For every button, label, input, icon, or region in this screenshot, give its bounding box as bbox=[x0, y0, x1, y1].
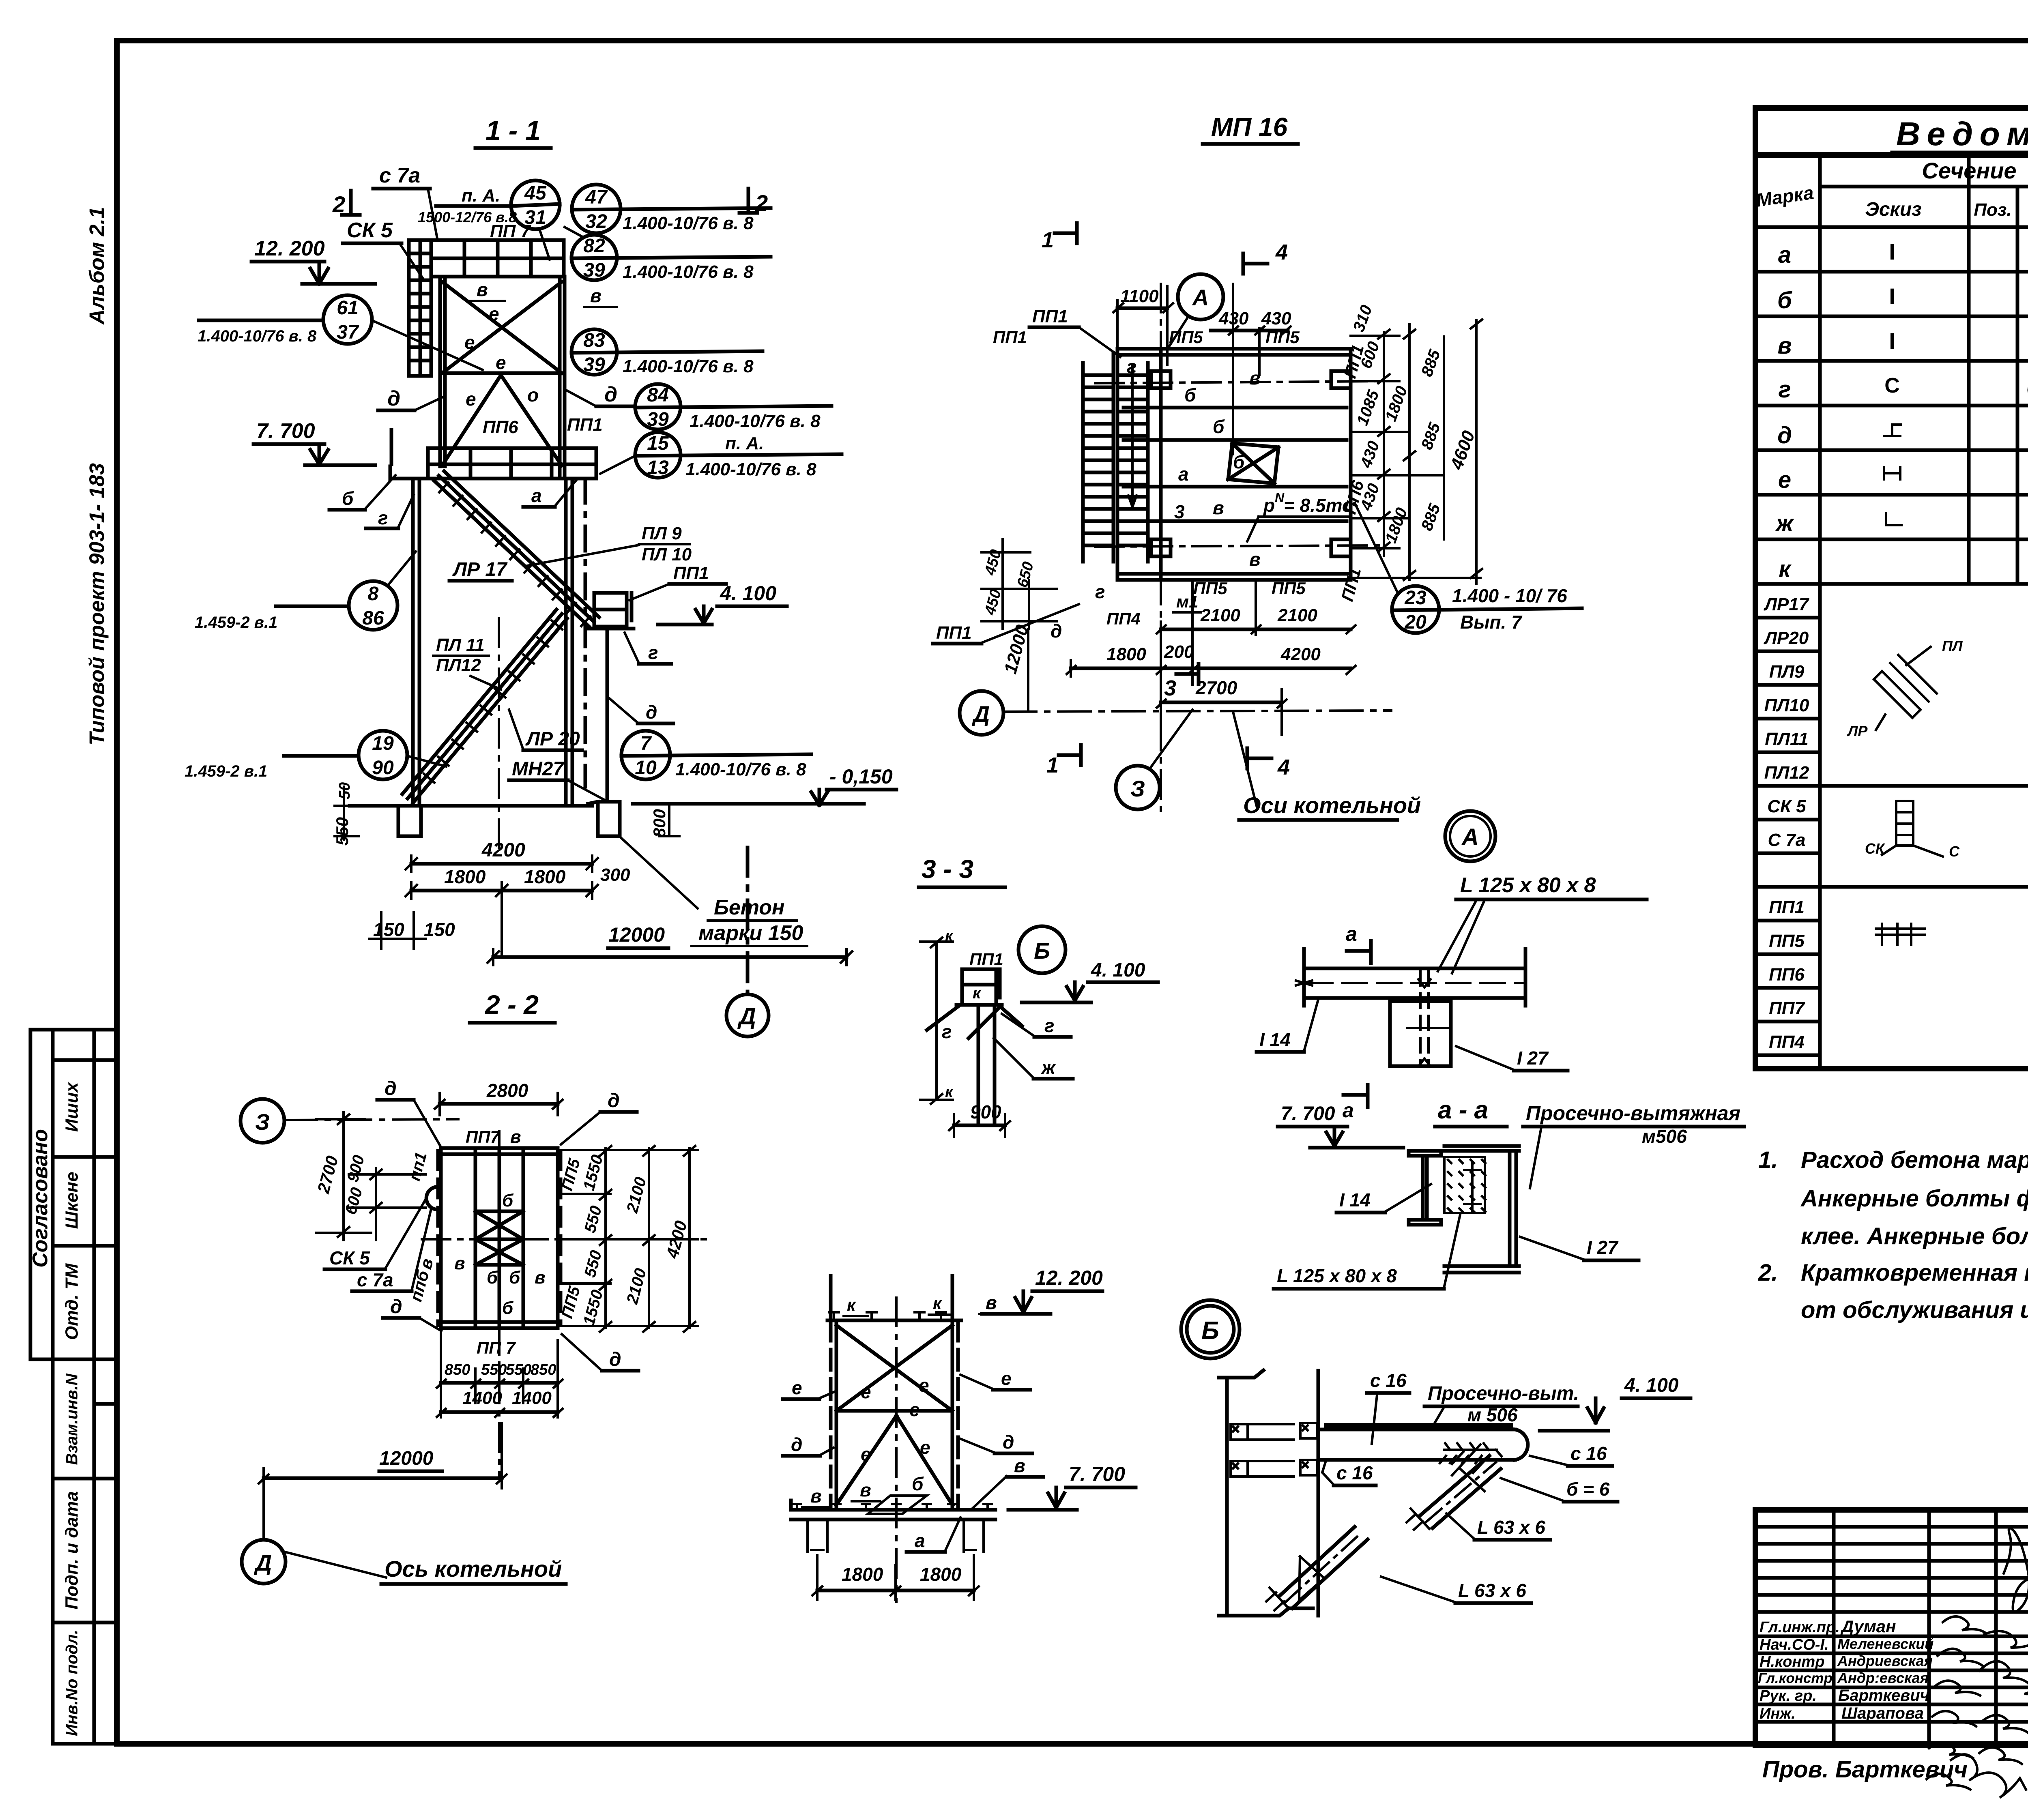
svg-text:I 27: I 27 bbox=[1587, 1237, 1619, 1258]
deck bbox=[1117, 349, 1351, 580]
svg-text:2100: 2100 bbox=[623, 1175, 650, 1215]
svg-text:к: к bbox=[1779, 556, 1792, 582]
svg-text:г: г bbox=[1127, 356, 1137, 377]
svg-text:13: 13 bbox=[647, 457, 669, 479]
svg-text:ПП1: ПП1 bbox=[969, 950, 1003, 969]
svg-text:г: г bbox=[1779, 376, 1791, 403]
svg-text:ппб: ппб bbox=[406, 1268, 433, 1304]
svg-text:Ось котельной: Ось котельной bbox=[385, 1556, 562, 1582]
svg-text:Д: Д bbox=[254, 1550, 272, 1575]
svg-text:2 - 2: 2 - 2 bbox=[484, 989, 539, 1019]
svg-text:1.: 1. bbox=[1758, 1147, 1778, 1173]
svg-text:12. 200: 12. 200 bbox=[254, 237, 325, 260]
callout 45/31 bbox=[418, 180, 560, 260]
svg-text:е: е bbox=[861, 1381, 871, 1402]
svg-text:б = 6: б = 6 bbox=[1566, 1479, 1610, 1500]
svg-text:Андриевская: Андриевская bbox=[1837, 1653, 1933, 1669]
svg-text:а: а bbox=[915, 1530, 925, 1551]
svg-text:310: 310 bbox=[1350, 303, 1376, 335]
callout 19/90 bbox=[185, 731, 446, 780]
svg-text:150: 150 bbox=[424, 919, 455, 940]
svg-text:е: е bbox=[909, 1399, 920, 1420]
svg-text:3: 3 bbox=[1174, 501, 1185, 522]
СК5 ladder cage bbox=[409, 240, 431, 376]
svg-text:39: 39 bbox=[583, 260, 605, 281]
callout 83/39 bbox=[571, 329, 763, 376]
svg-text:с 16: с 16 bbox=[1370, 1370, 1407, 1391]
X brace bbox=[836, 1325, 952, 1505]
svg-text:м 506: м 506 bbox=[1467, 1404, 1518, 1425]
svg-text:в: в bbox=[810, 1485, 822, 1507]
svg-text:г: г bbox=[378, 507, 388, 528]
svg-text:2100: 2100 bbox=[1277, 605, 1317, 625]
svg-text:430: 430 bbox=[1261, 309, 1291, 328]
svg-text:1085: 1085 bbox=[1353, 388, 1383, 428]
svg-text:ЛР20: ЛР20 bbox=[1764, 628, 1809, 648]
svg-text:е: е bbox=[496, 352, 506, 373]
svg-text:1400: 1400 bbox=[462, 1388, 502, 1408]
svg-text:4200: 4200 bbox=[1280, 644, 1321, 664]
svg-text:900: 900 bbox=[970, 1101, 1001, 1122]
svg-text:885: 885 bbox=[1418, 347, 1444, 379]
svg-text:ПЛ 11: ПЛ 11 bbox=[436, 635, 485, 655]
svg-text:в: в bbox=[535, 1268, 546, 1288]
svg-text:б: б bbox=[1184, 384, 1197, 406]
svg-text:850: 850 bbox=[531, 1361, 556, 1378]
svg-text:ПП1: ПП1 bbox=[1337, 566, 1364, 603]
svg-text:клее. Анкерные болты МН: клее. Анкерные болты МН 27 - 4 шт. bbox=[1801, 1223, 2028, 1249]
svg-text:ПП7: ПП7 bbox=[466, 1127, 500, 1146]
svg-text:С: С bbox=[1884, 374, 1900, 397]
svg-text:ПП1: ПП1 bbox=[673, 563, 709, 583]
svg-text:1.400-10/76 в. 8: 1.400-10/76 в. 8 bbox=[685, 459, 816, 479]
svg-text:б: б bbox=[502, 1298, 514, 1318]
svg-text:Ведомость элементов: Ведомость элементов bbox=[1896, 116, 2028, 152]
svg-text:82: 82 bbox=[583, 235, 605, 257]
svg-text:в: в bbox=[477, 279, 488, 300]
svg-text:4200: 4200 bbox=[481, 839, 525, 861]
svg-text:ЛР17: ЛР17 bbox=[1764, 595, 1810, 614]
svg-text:L 125 x 80 x 8: L 125 x 80 x 8 bbox=[1460, 874, 1596, 897]
svg-text:е: е bbox=[464, 332, 475, 353]
svg-text:Кратковременная нормативная: Кратковременная нормативная нагрузка на … bbox=[1801, 1260, 2028, 1286]
svg-text:ПП 7: ПП 7 bbox=[477, 1338, 516, 1357]
А circle top bbox=[1178, 274, 1223, 320]
beam bbox=[1296, 949, 1525, 1006]
svg-text:б: б bbox=[342, 488, 354, 509]
svg-text:1550: 1550 bbox=[580, 1288, 607, 1327]
svg-text:Сечение: Сечение bbox=[1922, 158, 2016, 183]
svg-text:600: 600 bbox=[342, 1186, 366, 1217]
text below title block bbox=[1762, 1753, 2028, 1801]
svg-text:Шарапова: Шарапова bbox=[1841, 1704, 1924, 1722]
svg-text:Просечно-вытяжная: Просечно-вытяжная bbox=[1526, 1102, 1740, 1125]
axis dash-dot bbox=[1095, 381, 1379, 383]
tower upper cage bbox=[440, 277, 565, 479]
svg-text:д: д bbox=[609, 1349, 621, 1370]
svg-text:б: б bbox=[487, 1268, 498, 1288]
svg-text:650: 650 bbox=[1014, 560, 1037, 589]
left dim line bbox=[920, 938, 953, 1104]
svg-text:к: к bbox=[933, 1294, 942, 1313]
svg-text:е: е bbox=[919, 1375, 929, 1396]
svg-text:ПП5: ПП5 bbox=[1193, 579, 1227, 598]
svg-text:е: е bbox=[792, 1377, 802, 1398]
svg-text:1800: 1800 bbox=[1382, 505, 1411, 545]
pp sketch bbox=[1876, 924, 1925, 945]
svg-text:ЛР: ЛР bbox=[1847, 723, 1868, 739]
Д circle with axis bbox=[960, 691, 1003, 735]
svg-text:84: 84 bbox=[647, 384, 668, 406]
svg-text:Гл.инж.пр.: Гл.инж.пр. bbox=[1759, 1619, 1840, 1636]
I14 section bbox=[1409, 1151, 1441, 1225]
svg-text:I: I bbox=[1889, 283, 1895, 309]
svg-text:1100: 1100 bbox=[1120, 286, 1159, 306]
svg-text:Меленевский: Меленевский bbox=[1837, 1635, 1933, 1652]
dashed edges bbox=[436, 1151, 440, 1325]
svg-text:ПЛ 10: ПЛ 10 bbox=[642, 545, 692, 564]
svg-text:ПП5: ПП5 bbox=[1265, 328, 1300, 347]
svg-text:Анкерные болты ф 12 устанав: Анкерные болты ф 12 устанавливать на эпо… bbox=[1800, 1185, 2028, 1212]
svg-text:430: 430 bbox=[1357, 439, 1383, 471]
svg-text:ПП1: ПП1 bbox=[567, 415, 603, 435]
title block bbox=[1755, 1510, 2028, 1790]
svg-text:Марка: Марка bbox=[1755, 182, 1815, 211]
svg-text:550: 550 bbox=[481, 1361, 507, 1378]
sk sketch bbox=[1882, 801, 1943, 856]
svg-text:32: 32 bbox=[585, 211, 607, 232]
callout 61/37 bbox=[198, 295, 483, 370]
svg-text:с 7а: с 7а bbox=[379, 164, 420, 187]
svg-text:в: в bbox=[986, 1292, 997, 1313]
svg-text:8: 8 bbox=[368, 583, 379, 605]
top platform grid bbox=[431, 240, 564, 277]
svg-text:ж: ж bbox=[1040, 1057, 1056, 1078]
svg-text:1550: 1550 bbox=[580, 1153, 607, 1192]
svg-text:в: в bbox=[1213, 497, 1224, 518]
beam С16 bbox=[1318, 1424, 1528, 1463]
svg-text:31: 31 bbox=[524, 207, 546, 228]
svg-text:200: 200 bbox=[1164, 642, 1194, 662]
svg-text:м506: м506 bbox=[1642, 1126, 1687, 1147]
section 3-3 bbox=[919, 854, 1158, 1137]
svg-text:15: 15 bbox=[647, 433, 669, 454]
svg-text:о: о bbox=[527, 384, 539, 406]
svg-text:550: 550 bbox=[581, 1204, 606, 1235]
svg-text:д: д bbox=[1777, 422, 1792, 449]
column band bbox=[1219, 1370, 1318, 1616]
bottom elevation frame bbox=[783, 1266, 1136, 1602]
svg-text:2100: 2100 bbox=[623, 1266, 650, 1306]
svg-text:б: б bbox=[502, 1191, 514, 1210]
svg-text:СК 5: СК 5 bbox=[347, 219, 393, 242]
svg-text:Оси котельной: Оси котельной bbox=[1243, 792, 1421, 818]
svg-text:3: 3 bbox=[1164, 676, 1176, 700]
svg-text:450: 450 bbox=[982, 588, 1005, 617]
svg-text:3 - 3: 3 - 3 bbox=[922, 854, 973, 884]
svg-text:ПП1: ПП1 bbox=[993, 328, 1027, 347]
svg-text:СК 5: СК 5 bbox=[329, 1247, 370, 1268]
svg-text:д: д bbox=[390, 1296, 402, 1318]
svg-text:ПП6: ПП6 bbox=[1769, 965, 1805, 985]
svg-text:1.459-2 в.1: 1.459-2 в.1 bbox=[195, 614, 277, 631]
svg-text:20: 20 bbox=[1404, 612, 1426, 633]
svg-text:е: е bbox=[489, 303, 499, 324]
svg-text:550: 550 bbox=[506, 1361, 531, 1378]
svg-text:а: а bbox=[1346, 923, 1357, 945]
svg-text:Н.контр: Н.контр bbox=[1759, 1653, 1824, 1670]
svg-text:г: г bbox=[1095, 581, 1105, 602]
svg-text:в: в bbox=[1014, 1455, 1025, 1476]
svg-text:2700: 2700 bbox=[1195, 677, 1237, 698]
svg-text:Гл.констр.: Гл.констр. bbox=[1758, 1670, 1837, 1686]
Д circle bottom bbox=[262, 1471, 265, 1539]
svg-text:в: в bbox=[1249, 549, 1261, 570]
svg-text:от обслуживания и монтажа: от обслуживания и монтажа 400 кгс/м bbox=[1801, 1297, 2028, 1323]
svg-text:Бетон: Бетон bbox=[714, 896, 784, 919]
plate sketch bbox=[1874, 647, 1937, 730]
svg-text:е: е bbox=[1001, 1368, 1012, 1389]
svg-text:д: д bbox=[1003, 1432, 1014, 1453]
column below bbox=[1390, 971, 1451, 1067]
right dim chains bbox=[1351, 320, 1482, 584]
callout 47/32 bbox=[572, 185, 771, 233]
svg-text:ПП4: ПП4 bbox=[1769, 1032, 1805, 1052]
З circle bbox=[1116, 766, 1160, 809]
svg-text:4600: 4600 bbox=[1446, 428, 1479, 472]
д circle bottom with axis bbox=[746, 848, 750, 994]
svg-text:86: 86 bbox=[362, 607, 384, 629]
svg-text:1800: 1800 bbox=[1382, 384, 1411, 424]
svg-text:п. А.: п. А. bbox=[725, 434, 764, 453]
З circle left with axis bbox=[241, 1099, 284, 1143]
svg-text:в: в bbox=[1777, 333, 1792, 359]
svg-text:р: р bbox=[1263, 495, 1275, 516]
svg-text:600: 600 bbox=[1357, 339, 1383, 371]
svg-text:ПП7: ПП7 bbox=[1769, 998, 1805, 1018]
detail а-а bbox=[1274, 1096, 1744, 1289]
svg-text:а: а bbox=[1343, 1099, 1354, 1122]
signatures squiggles bbox=[1927, 1528, 2028, 1790]
svg-text:марки 150: марки 150 bbox=[698, 921, 803, 945]
svg-text:к: к bbox=[945, 1084, 954, 1101]
svg-text:ЛР 20: ЛР 20 bbox=[525, 728, 580, 750]
bottom platform beam bbox=[791, 1500, 995, 1552]
svg-text:1800: 1800 bbox=[1106, 644, 1146, 664]
svg-text:Д: Д bbox=[972, 701, 990, 727]
svg-text:д: д bbox=[1051, 620, 1062, 642]
svg-text:З: З bbox=[255, 1109, 270, 1135]
svg-text:в: в bbox=[1249, 367, 1261, 388]
svg-text:ПЛ: ПЛ bbox=[1942, 637, 1963, 654]
svg-text:39: 39 bbox=[647, 409, 669, 430]
svg-text:п. А.: п. А. bbox=[462, 186, 500, 206]
svg-text:б: б bbox=[1777, 287, 1793, 313]
svg-text:ПЛ11: ПЛ11 bbox=[1765, 729, 1809, 749]
svg-text:б: б bbox=[1233, 451, 1245, 472]
svg-text:г: г bbox=[648, 642, 658, 663]
top chord with к marks bbox=[827, 1319, 961, 1322]
svg-text:Б: Б bbox=[1034, 938, 1050, 964]
left sidebar stamp boxes bbox=[29, 1030, 117, 1744]
ladder ЛР20 bbox=[402, 610, 567, 803]
notes text bbox=[1758, 1141, 2028, 1323]
svg-text:4. 100: 4. 100 bbox=[1624, 1375, 1679, 1396]
middle platform bbox=[390, 430, 596, 479]
svg-text:ЛР 17: ЛР 17 bbox=[452, 559, 508, 580]
svg-text:пп1: пп1 bbox=[406, 1150, 430, 1183]
svg-text:L 125 x 80 x 8: L 125 x 80 x 8 bbox=[1277, 1265, 1397, 1286]
svg-text:ПЛ10: ПЛ10 bbox=[1764, 695, 1809, 715]
platform ПП1 at 4.100 bbox=[589, 593, 634, 802]
svg-text:4: 4 bbox=[1277, 755, 1290, 779]
beam top detail bbox=[1257, 874, 1647, 1122]
svg-text:Шкене: Шкене bbox=[62, 1172, 82, 1229]
svg-text:L 63 x 6: L 63 x 6 bbox=[1458, 1580, 1526, 1601]
svg-text:300: 300 bbox=[600, 865, 630, 885]
svg-text:СК 5: СК 5 bbox=[1767, 796, 1806, 816]
svg-text:10: 10 bbox=[635, 757, 657, 779]
svg-text:Взам.инв.N: Взам.инв.N bbox=[63, 1373, 81, 1465]
svg-text:150: 150 bbox=[373, 919, 404, 940]
centerlines bbox=[422, 1238, 706, 1241]
svg-text:а: а bbox=[1778, 242, 1791, 268]
svg-text:Рук. гр.: Рук. гр. bbox=[1759, 1687, 1817, 1704]
svg-text:А: А bbox=[1192, 285, 1209, 310]
svg-text:ПП6: ПП6 bbox=[483, 417, 518, 437]
svg-text:е: е bbox=[466, 388, 476, 410]
group rows marka column bbox=[1755, 616, 1820, 620]
svg-text:1.400-10/76 в. 8: 1.400-10/76 в. 8 bbox=[675, 760, 806, 779]
svg-text:с 7а: с 7а bbox=[357, 1269, 393, 1290]
lower diagonal L63x6 bbox=[1266, 1527, 1368, 1610]
svg-text:23: 23 bbox=[1404, 587, 1426, 609]
svg-text:7. 700: 7. 700 bbox=[1281, 1103, 1335, 1125]
svg-text:1.400-10/76 в. 8: 1.400-10/76 в. 8 bbox=[198, 327, 317, 345]
elements list table (Ведомость элементов) bbox=[1755, 108, 2028, 1069]
hatched gusset bbox=[1444, 1157, 1485, 1213]
callout 15/13 bbox=[600, 432, 842, 479]
svg-text:I 14: I 14 bbox=[1259, 1029, 1291, 1050]
right dim chains bbox=[558, 1146, 698, 1332]
svg-text:12000: 12000 bbox=[608, 923, 665, 946]
svg-text:- 0,150: - 0,150 bbox=[829, 765, 893, 788]
callout 82/39 bbox=[565, 227, 771, 282]
svg-text:61: 61 bbox=[337, 297, 358, 319]
svg-text:N: N bbox=[1275, 490, 1285, 505]
svg-text:ПП5: ПП5 bbox=[1769, 931, 1805, 951]
svg-text:1800: 1800 bbox=[842, 1564, 883, 1585]
svg-text:Барткевич: Барткевич bbox=[1838, 1687, 1929, 1704]
flange plates with x bbox=[1231, 1423, 1317, 1477]
plan МП 16 bbox=[933, 112, 1582, 861]
ladder ЛР17 bbox=[434, 471, 599, 627]
section 1-1 drawing bbox=[185, 115, 896, 1037]
svg-text:д: д bbox=[608, 1090, 620, 1112]
svg-text:ПЛ9: ПЛ9 bbox=[1769, 662, 1805, 682]
svg-text:Инв.No подл.: Инв.No подл. bbox=[63, 1630, 81, 1736]
svg-text:Б: Б bbox=[1201, 1317, 1219, 1345]
svg-text:L 63 x 6: L 63 x 6 bbox=[1477, 1517, 1545, 1538]
ground and footings bbox=[350, 802, 864, 836]
svg-text:г: г bbox=[1044, 1015, 1055, 1036]
svg-text:37: 37 bbox=[337, 322, 359, 343]
svg-text:550: 550 bbox=[581, 1249, 606, 1279]
svg-text:д: д bbox=[387, 387, 400, 410]
svg-text:Эскиз: Эскиз bbox=[1865, 199, 1921, 220]
callout 84/39 bbox=[635, 384, 831, 431]
upper diagonal L63x6 bbox=[1407, 1444, 1501, 1530]
svg-text:7. 700: 7. 700 bbox=[1069, 1463, 1125, 1485]
svg-text:а: а bbox=[531, 485, 542, 506]
svg-text:Андр:евская: Андр:евская bbox=[1837, 1670, 1929, 1686]
svg-text:1.400-10/76 в. 8: 1.400-10/76 в. 8 bbox=[623, 213, 754, 233]
svg-text:Типовой проект 903-1- 183: Типовой проект 903-1- 183 bbox=[86, 463, 109, 745]
svg-text:Думан: Думан bbox=[1840, 1617, 1896, 1636]
svg-text:б: б bbox=[509, 1268, 521, 1288]
svg-text:д: д bbox=[604, 383, 617, 406]
svg-text:2100: 2100 bbox=[1200, 605, 1240, 625]
svg-text:4. 100: 4. 100 bbox=[1091, 959, 1145, 981]
svg-text:Просечно-выт.: Просечно-выт. bbox=[1428, 1383, 1579, 1404]
svg-text:Подп. и дата: Подп. и дата bbox=[62, 1491, 82, 1609]
svg-text:12. 200: 12. 200 bbox=[1035, 1266, 1103, 1289]
svg-text:45: 45 bbox=[524, 182, 547, 204]
svg-text:I 27: I 27 bbox=[1517, 1047, 1549, 1069]
svg-text:д: д bbox=[791, 1434, 802, 1455]
svg-text:а: а bbox=[1178, 464, 1189, 485]
svg-text:7: 7 bbox=[640, 733, 652, 754]
svg-text:39: 39 bbox=[583, 354, 605, 376]
svg-text:83: 83 bbox=[583, 330, 605, 351]
svg-text:б: б bbox=[912, 1473, 924, 1494]
svg-text:2700: 2700 bbox=[314, 1154, 342, 1195]
svg-text:2.: 2. bbox=[1758, 1260, 1778, 1286]
svg-text:1.400-10/76 в. 8: 1.400-10/76 в. 8 bbox=[690, 411, 821, 431]
svg-text:1800: 1800 bbox=[444, 866, 486, 887]
svg-text:с 16: с 16 bbox=[1336, 1462, 1373, 1483]
verticals above top chord bbox=[831, 1276, 952, 1320]
svg-text:1800: 1800 bbox=[920, 1564, 962, 1585]
svg-text:к: к bbox=[945, 927, 954, 944]
deck 2-2 bbox=[441, 1148, 558, 1328]
vertical margin captions bbox=[86, 207, 109, 745]
svg-text:А: А bbox=[1461, 824, 1479, 850]
svg-text:с 16: с 16 bbox=[1570, 1443, 1607, 1464]
svg-text:ПП1: ПП1 bbox=[936, 623, 972, 643]
svg-text:850: 850 bbox=[445, 1361, 470, 1378]
svg-text:С 16: С 16 bbox=[2026, 378, 2028, 399]
svg-text:1.459-2 в.1: 1.459-2 в.1 bbox=[185, 762, 267, 780]
svg-text:д: д bbox=[385, 1078, 397, 1099]
svg-text:ПП4: ПП4 bbox=[1106, 609, 1141, 628]
svg-text:4. 100: 4. 100 bbox=[720, 582, 776, 605]
svg-text:2800: 2800 bbox=[486, 1080, 528, 1101]
svg-text:СК: СК bbox=[1865, 840, 1886, 857]
svg-text:б: б bbox=[1213, 416, 1225, 437]
svg-text:е: е bbox=[920, 1437, 930, 1458]
svg-text:С: С bbox=[1949, 843, 1960, 860]
svg-text:1.400-10/76 в. 8: 1.400-10/76 в. 8 bbox=[623, 356, 754, 376]
svg-text:ж: ж bbox=[1775, 510, 1795, 537]
svg-text:I: I bbox=[1889, 239, 1895, 264]
svg-text:в: в bbox=[860, 1479, 871, 1500]
Б double circle bbox=[1181, 1300, 1240, 1359]
А double circle bbox=[1445, 811, 1495, 861]
svg-text:ПП5: ПП5 bbox=[1272, 579, 1306, 598]
svg-text:47: 47 bbox=[585, 187, 608, 208]
svg-text:1 - 1: 1 - 1 bbox=[486, 115, 541, 146]
